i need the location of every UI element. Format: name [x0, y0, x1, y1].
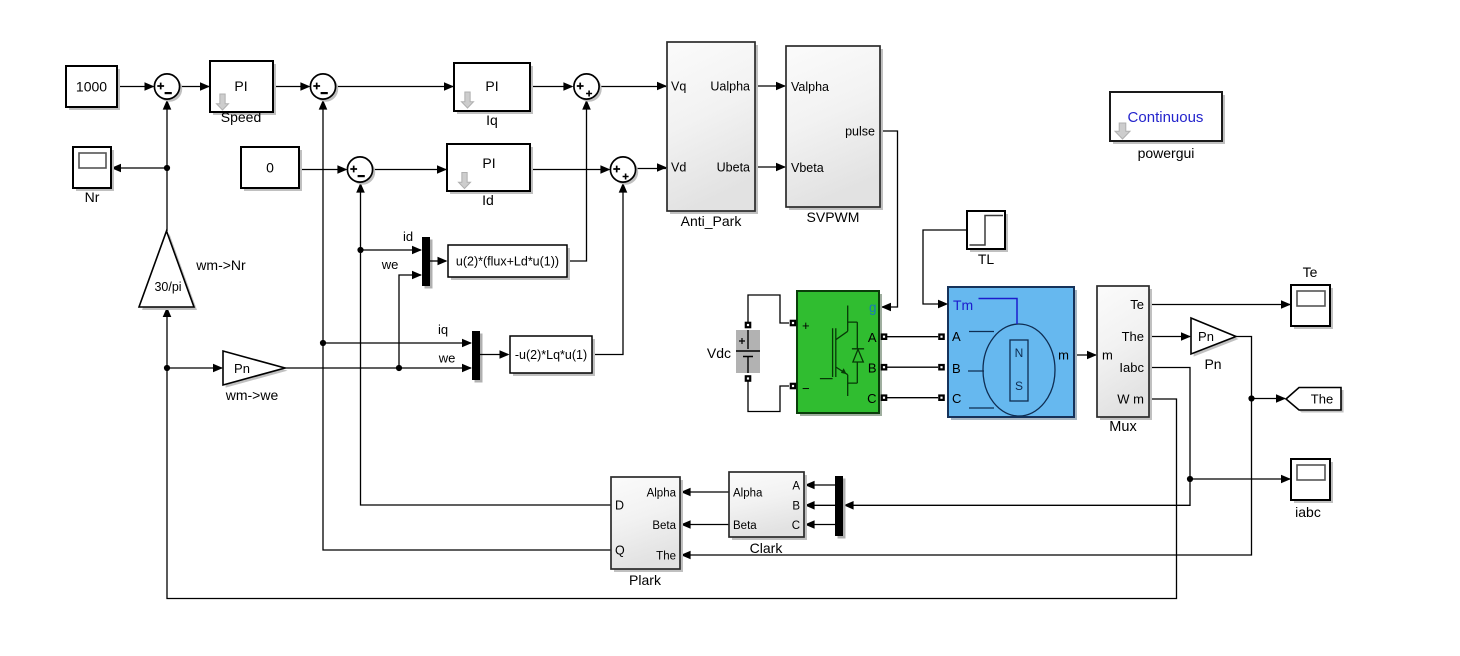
svg-text:Iq: Iq	[486, 112, 498, 128]
svg-text:Alpha: Alpha	[647, 488, 677, 500]
svg-text:Id: Id	[482, 192, 494, 208]
wire Mux2 to Fcn2	[480, 350, 510, 359]
label Mux	[1109, 419, 1137, 435]
wire Mux The to Pn gain	[1149, 332, 1191, 341]
sum junction Sum3	[347, 157, 375, 185]
wire Sum5 to Anti_Park Vd	[636, 163, 667, 172]
svg-text:Iabc: Iabc	[1119, 360, 1144, 375]
label Te	[1303, 264, 1318, 280]
gain block wm-we Pn	[223, 351, 288, 388]
wire Sum1 to Speed PI	[180, 82, 210, 91]
subsystem SVPWM	[786, 46, 883, 210]
svg-text:C: C	[952, 391, 961, 406]
svg-text:TL: TL	[978, 251, 995, 267]
svg-text:Pn: Pn	[1204, 356, 1221, 372]
svg-text:m: m	[1058, 348, 1069, 363]
wire Pn we to Mux2	[285, 364, 472, 373]
wire branch to Nr scope	[111, 164, 167, 173]
wire Fcn2 to Sum5	[592, 183, 627, 355]
svg-text:+: +	[802, 318, 810, 333]
label TL	[978, 251, 995, 267]
label Clark	[750, 540, 784, 556]
wire Demux to Clark B	[805, 501, 835, 510]
label Vdc	[707, 345, 731, 361]
label we2	[438, 351, 456, 366]
wire motor m to Mux	[1074, 351, 1097, 360]
svg-text:Alpha: Alpha	[733, 488, 763, 500]
svg-text:N: N	[1015, 346, 1024, 360]
svg-text:Te: Te	[1303, 264, 1318, 280]
svg-text:Pn: Pn	[1198, 329, 1214, 344]
svg-text:Ubeta: Ubeta	[717, 161, 750, 175]
mux Mux2	[472, 331, 483, 383]
label id	[403, 229, 413, 244]
svg-text:30/pi: 30/pi	[154, 280, 181, 294]
label Nr	[85, 189, 100, 205]
svg-text:Clark: Clark	[750, 540, 784, 556]
svg-text:-u(2)*Lq*u(1): -u(2)*Lq*u(1)	[515, 348, 587, 362]
wire Pn out to Plark The	[681, 337, 1255, 560]
wire Mux1 to Fcn1	[430, 257, 448, 266]
wire Wm branch to Pn gain	[167, 364, 223, 373]
label powergui	[1138, 145, 1195, 161]
svg-text:Tm: Tm	[953, 297, 973, 313]
Fcn block u(2)*(flux+Ld*u(1))	[448, 245, 570, 280]
wire 0 to Sum3	[299, 165, 347, 174]
mux Mux1	[422, 237, 433, 289]
svg-text:Valpha: Valpha	[791, 80, 829, 94]
powergui block	[1110, 92, 1225, 144]
wire Plark D id feedback	[356, 183, 611, 505]
wire we branch to Mux1	[399, 271, 422, 368]
gain block 30/pi	[139, 231, 197, 310]
wire Vdc plus to inverter	[748, 295, 789, 323]
wire iq branch to Mux2	[323, 339, 472, 348]
wire id branch to Mux1	[361, 246, 423, 255]
label Id	[482, 192, 494, 208]
wire Mux Wm feedback	[163, 307, 1177, 599]
svg-text:W m: W m	[1117, 392, 1144, 407]
svg-text:iq: iq	[438, 322, 448, 337]
wire Anti_Park Ubeta to SVPWM Vbeta	[755, 163, 786, 172]
svg-text:pulse: pulse	[845, 125, 875, 139]
wire Vdc minus to inverter	[748, 381, 789, 412]
wire Clark Alpha to Plark	[681, 488, 729, 497]
svg-text:A: A	[792, 481, 800, 493]
goto tag The	[1286, 388, 1344, 413]
constant block 1000	[66, 66, 120, 110]
wire Mux Te to scope	[1149, 300, 1291, 309]
svg-text:we: we	[438, 351, 456, 366]
scope block Te	[1291, 285, 1333, 329]
svg-text:Beta: Beta	[733, 520, 757, 532]
svg-text:Vdc: Vdc	[707, 345, 731, 361]
wire phase B	[887, 366, 938, 368]
svg-text:Pn: Pn	[234, 361, 250, 376]
wire branch to iabc scope	[1190, 475, 1291, 484]
svg-text:Vq: Vq	[671, 80, 686, 94]
label wm-&gt;Nr	[195, 257, 246, 273]
svg-text:g: g	[869, 300, 877, 315]
svg-text:Vbeta: Vbeta	[791, 161, 824, 175]
label Iq	[486, 112, 498, 128]
Mux block	[1097, 286, 1152, 420]
wire Plark Q iq feedback	[319, 100, 611, 550]
svg-text:Nr: Nr	[85, 189, 100, 205]
inverter bridge block	[797, 291, 882, 416]
PI controller Iq block	[454, 63, 533, 114]
svg-text:PI: PI	[482, 155, 495, 171]
svg-text:u(2)*(flux+Ld*u(1)): u(2)*(flux+Ld*u(1))	[456, 255, 559, 269]
scope block Nr	[73, 147, 114, 191]
subsystem Clark	[729, 472, 807, 540]
inverter port squares	[790, 320, 888, 401]
svg-text:Te: Te	[1130, 297, 1144, 312]
step block TL	[967, 211, 1008, 252]
gain block Pn	[1191, 318, 1239, 357]
PI controller Id block	[447, 144, 533, 194]
label Speed	[221, 109, 261, 125]
svg-text:PI: PI	[485, 78, 498, 94]
wire Demux to Clark A	[805, 481, 835, 490]
svg-text:wm->we: wm->we	[225, 387, 279, 403]
wire Sum4 to Anti_Park Vq	[599, 82, 667, 91]
label iq	[438, 322, 448, 337]
wire phase A	[887, 336, 938, 338]
wire Fcn1 to Sum4	[567, 100, 591, 261]
svg-text:The: The	[656, 551, 676, 563]
subsystem Plark	[611, 477, 683, 572]
sum junction Sum5	[610, 157, 638, 185]
svg-text:A: A	[952, 329, 961, 344]
svg-text:The: The	[1311, 392, 1333, 407]
motor port squares	[938, 333, 945, 401]
label iabc	[1295, 504, 1321, 520]
label wm-&gt;we	[225, 387, 279, 403]
svg-text:wm->Nr: wm->Nr	[195, 257, 246, 273]
svg-text:B: B	[952, 361, 961, 376]
sum junction Sum1	[154, 74, 182, 102]
PMSM motor block	[938, 287, 1077, 420]
wire Sum3 to Id PI	[373, 165, 447, 174]
wire Speed PI to Sum2	[273, 82, 310, 91]
wire phase C	[887, 397, 938, 399]
svg-text:−: −	[802, 381, 810, 396]
wire Clark Beta to Plark	[681, 520, 729, 529]
svg-text:C: C	[792, 520, 800, 532]
label SVPWM	[807, 209, 860, 225]
wire TL to motor Tm	[923, 230, 967, 308]
label we	[381, 257, 399, 272]
svg-text:Vd: Vd	[671, 161, 686, 175]
svg-text:Continuous: Continuous	[1128, 109, 1204, 126]
DC source Vdc	[736, 322, 760, 382]
wire Mux Iabc to Demux	[844, 368, 1194, 510]
wire 1000 to Sum1	[117, 82, 155, 91]
sum junction Sum2	[310, 74, 338, 102]
svg-text:1000: 1000	[76, 79, 107, 95]
PI controller Speed block	[210, 61, 276, 115]
svg-text:Anti_Park: Anti_Park	[681, 213, 743, 229]
svg-text:0: 0	[266, 160, 274, 176]
svg-text:Plark: Plark	[629, 572, 662, 588]
svg-text:B: B	[868, 361, 877, 376]
svg-text:Mux: Mux	[1109, 419, 1137, 435]
demux block	[835, 476, 846, 539]
svg-text:S: S	[1015, 379, 1023, 393]
scope block iabc	[1291, 459, 1333, 503]
svg-text:Q: Q	[615, 544, 625, 558]
wire Demux to Clark C	[805, 520, 835, 529]
label Pn	[1204, 356, 1221, 372]
svg-text:Ualpha: Ualpha	[710, 80, 750, 94]
sum junction Sum4	[574, 74, 602, 102]
svg-text:id: id	[403, 229, 413, 244]
svg-text:A: A	[868, 330, 877, 345]
svg-text:D: D	[615, 499, 624, 513]
label Anti_Park	[681, 213, 743, 229]
wire Anti_Park Ualpha to SVPWM Valpha	[755, 82, 786, 91]
svg-text:iabc: iabc	[1295, 504, 1321, 520]
wire SVPWM pulse to inverter g	[880, 131, 898, 311]
wire 30/pi out to Sum1	[163, 100, 172, 231]
subsystem Anti_Park	[667, 42, 758, 214]
svg-text:The: The	[1122, 329, 1144, 344]
wire Sum2 to Iq PI	[336, 82, 454, 91]
svg-text:C: C	[867, 391, 876, 406]
svg-text:Beta: Beta	[652, 520, 676, 532]
svg-text:Speed: Speed	[221, 109, 261, 125]
svg-text:PI: PI	[234, 78, 247, 94]
svg-text:we: we	[381, 257, 399, 272]
svg-text:powergui: powergui	[1138, 145, 1195, 161]
wire Id PI to Sum5	[530, 165, 610, 174]
constant block 0	[241, 147, 302, 191]
Fcn block -u(2)*Lq*u(1)	[510, 336, 595, 376]
svg-text:SVPWM: SVPWM	[807, 209, 860, 225]
svg-text:B: B	[792, 501, 800, 513]
wire Iq PI to Sum4	[530, 82, 573, 91]
label Plark	[629, 572, 662, 588]
wire branch to The tag	[1252, 394, 1287, 403]
svg-text:m: m	[1102, 348, 1113, 363]
